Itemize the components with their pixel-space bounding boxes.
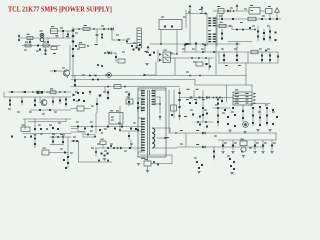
label R885b [60,134,63,135]
wire Q801 emitter [67,76,69,78]
value label L84 [166,137,169,138]
wire rectified DC top [73,28,97,30]
bridge diode D802 [72,35,74,37]
resistor R871 [217,121,219,123]
capacitor C821b [9,104,11,106]
wire flag stub S3 [204,48,206,53]
capacitor C849 [224,109,226,111]
wire main cap branch [96,29,98,43]
wire stub F804 [276,13,278,20]
value label L82 [249,148,252,149]
value label L22 [259,49,262,50]
resistor R852j [96,103,98,105]
value label L65 [202,99,205,100]
diode D819 [83,100,85,102]
wire R832 drop [208,58,210,70]
wire K stub up1 [193,91,195,98]
resistor R872 [234,114,236,116]
wire N vert x131 [130,140,132,148]
IC803 error amp [109,110,123,124]
resistor R864c [202,114,204,116]
wire opto in top [147,62,157,75]
value label L76 [214,136,217,137]
wire cap col B [269,52,271,63]
value label L72 [258,112,261,113]
capacitor C819 [115,56,117,58]
value label L38 [133,43,136,44]
capacitor C817 [45,53,47,55]
wire L vert x253 [252,109,254,126]
power flag +12V [189,5,192,10]
diode D820 [107,92,109,94]
wire flag stub S4 [236,47,238,53]
node startup junction [108,28,109,29]
resistor R875 [259,106,261,108]
value label L68 [215,105,218,106]
wire line-filter top rail [50,30,73,32]
resistor R844b [65,103,67,105]
capacitor C811 [269,18,271,20]
node cluster e [138,49,140,51]
value label L47 [42,114,45,115]
resistor R854b [265,50,267,52]
capacitor C830b [78,99,80,101]
diode D807 [227,10,230,13]
resistor R807 [219,22,226,28]
label CN802 [235,89,238,90]
wire secondary rail B [219,62,278,64]
resistor R804 [118,39,120,41]
value label L85 [40,134,43,135]
resistor R864 [217,99,219,101]
value label L86 [52,134,55,135]
wire feedback lower [71,79,195,81]
node junction k1 [202,97,204,99]
wire R811 drop [45,47,47,54]
capacitor C809 [232,18,234,20]
value label L93 [130,144,133,145]
node cluster c [139,44,141,46]
diode D864 [230,165,232,167]
node junction p5 [24,136,26,138]
capacitor C851L [227,116,229,118]
resistor R814 [118,59,125,63]
node junction w3 [176,53,178,55]
wire L vert x218 [217,108,219,126]
value label L51 [125,92,128,93]
wire cap drop 255 [254,140,256,150]
wire rail link vert [275,133,277,140]
label IC802 [164,50,167,51]
wire grid right vert [247,52,249,63]
capacitor C857L [272,123,274,125]
wire U803 in [71,108,77,110]
capacitor C855b [242,117,244,119]
wire Q802 base [40,97,42,103]
value label L40 [105,75,108,76]
wire TR row3b [232,26,256,30]
value label L60 [38,125,41,126]
label IC803 inner [111,117,114,118]
wire flag stub A [189,10,191,14]
wire C802 stub [62,31,64,38]
value label L23 [267,49,270,50]
value label L50 [103,92,106,93]
resistor R854 [91,126,93,128]
wire opto bottom rail [71,86,180,88]
wire flag +B stem [236,9,238,11]
value label L75 [180,130,183,131]
resistor R841 [50,88,56,93]
capacitor C806 [126,41,128,43]
resistor R891 [101,153,103,155]
node cluster d [133,49,135,51]
capacitor C869a [30,136,32,138]
wire grid left vert [218,52,220,63]
primary winding lower [141,118,145,152]
wire vert x120 [119,106,121,131]
bridge diode D803 [72,40,74,42]
resistor R866 [206,113,208,115]
wire L vert x267 [266,109,268,126]
diode bridge D806 [217,6,224,14]
cap C812b inside module [171,26,173,28]
resistor R812 [51,47,57,50]
power flag T1 [159,115,162,120]
wire output rail mid [177,146,264,148]
value label L55 [76,122,79,123]
node cluster b [136,47,138,49]
capacitor C843b [189,102,191,104]
wire power tap2 [152,147,177,149]
value label L78 [234,143,237,144]
resistor R865 [192,114,194,116]
wire vert x108 [107,90,109,100]
wire power tap1 [152,127,170,129]
diode D813 [108,52,111,55]
wire C803 stub [67,31,69,38]
wire table feed drop [251,85,253,92]
primary winding upper A [141,90,145,96]
wire N row main [95,147,142,149]
value label L73 [265,105,268,106]
wire cap drop ac1 [29,38,31,43]
node junction g4 [191,57,193,59]
resistor R857 [126,97,133,104]
wire vert o3 [185,133,187,147]
node junction bridge out [78,28,80,30]
regulator IC801 [249,5,260,14]
wire primary tap4 [138,117,145,119]
wire startup drop [111,29,113,40]
value label L66 [190,110,193,111]
wire vertical x177 [176,30,178,55]
wire diode col 2 [236,52,238,63]
resistor R893 [100,139,106,145]
wire lower left bottom [23,133,71,135]
value label L56 [90,122,93,123]
dark node xB [99,94,102,96]
wire opto to rail [171,53,178,55]
capacitor CY2 [47,41,49,43]
pin node n2 [107,147,109,149]
resistor R809c [269,37,271,39]
wire bridge rectifier rail [72,28,74,79]
value label L27 [205,64,208,65]
wire K stub down1 [195,98,197,105]
wire L vert x260 [259,108,261,126]
capacitor C872 [67,156,69,158]
svg-text:TCL 21K77 SMPS [POWER SUPPLY]: TCL 21K77 SMPS [POWER SUPPLY] [8,5,112,14]
resistor R890 [73,140,75,142]
wire drop x35L [34,119,36,131]
wire M drop x63 [62,137,64,145]
capacitor C838 [128,135,130,137]
capacitor C862 [232,145,234,147]
wire flag stub A long [189,10,191,45]
wire L row [213,107,230,109]
primary winding upper B [141,99,145,106]
capacitor C853L [252,115,254,117]
diode D863 [198,167,200,169]
ground GO5 [261,152,264,154]
value label L77 [224,143,227,144]
value label L37 [122,52,125,53]
label B+ node [184,116,187,117]
node junction m2 [57,136,59,138]
value label L30 [186,72,189,73]
capacitor C814 [242,29,244,31]
value label L24 [225,65,228,66]
value label L46 [29,112,32,113]
capacitor C863 [254,145,256,147]
resistor R845 [21,125,30,132]
capacitor C873 [67,162,69,164]
wire cap drop 223 [222,140,224,150]
capacitor C825 [34,128,36,130]
capacitor C875 [76,140,78,142]
label IC801 pins [251,10,253,11]
wire drop x222 [221,97,223,103]
resistor R844 [52,101,54,103]
capacitor C874 [87,134,89,136]
wire B+ vert rail [179,88,181,120]
wire xfmr bottom rail [140,154,172,156]
node junction p4 [46,128,48,130]
wire bottom row J [71,126,142,128]
resistor R886 [42,148,49,155]
capacitor C833b [153,52,155,54]
value label L61 [49,125,52,126]
node junction n1 [101,132,102,133]
cap C812a inside module [164,26,166,28]
connector table CN802 [233,92,252,105]
label R863 [196,89,199,90]
degauss posistor TH801 [40,33,44,41]
node junction g6 [205,57,207,59]
wire feedback upper [183,75,246,77]
node junction p2 [59,91,61,93]
capacitor C878 [98,160,100,162]
resistor R883 [229,158,231,160]
resistor R856 [121,126,123,128]
value label L1 [101,26,104,27]
wire primary tap5 [138,151,145,153]
wire vert x96 low [95,113,97,133]
capacitor C815b [72,55,74,57]
wire snubber vert B [173,90,175,118]
capacitor C814f [221,33,223,35]
capacitor C842 [195,102,197,104]
resistor R846 [52,127,54,129]
diode D830 [178,92,180,94]
resistor R880 [240,139,247,146]
wire diode col 1 [223,52,225,63]
wire M drop x53 [52,137,54,145]
ground GL3 [256,130,259,132]
diode D808 [249,27,251,29]
wire drop x66 [65,97,67,107]
resistor R873 [234,125,236,127]
value label L11 [244,9,247,10]
wire primary row3 [30,109,71,111]
wire TR vert x270 [269,27,271,41]
diode D853 [236,55,238,57]
resistor R874 [252,107,254,109]
capacitor C841 [179,106,181,108]
power flag +B [236,4,239,9]
wire N row2 [71,140,79,142]
value label L7 [183,17,186,18]
pin node n3 [113,147,115,149]
capacitor C830 [82,92,84,94]
node junction p1 [32,91,33,92]
value label L81 [273,143,276,144]
capacitor C866 [201,164,203,166]
resistor R895 [157,164,159,166]
wire drop x226 [226,85,228,102]
wire cap col A [261,52,263,63]
resistor R888 [65,167,67,169]
wire stub D806 [221,14,223,20]
value label L20 [221,49,224,50]
fusible resistor F801 [27,34,34,40]
arrow opto in2 [159,59,162,62]
wire opto out [171,57,214,59]
resistor R832 [206,63,208,65]
wire drop x10 [9,97,11,106]
bridge diode D801 [72,29,74,31]
capacitor C865 [271,145,273,147]
node junction m1 [52,136,54,138]
capacitor C846 [199,124,201,126]
filter module L802 [159,17,182,30]
resistor R806 [248,17,256,21]
wire U803 out [84,108,90,110]
capacitor C853 [277,56,279,58]
wire left edge drop [3,92,5,97]
diode D866 [107,153,109,155]
value label L58 [118,123,121,124]
capacitor C845 [199,116,201,118]
capacitor C852 [269,55,271,57]
diode D862 [202,146,205,149]
resistor R822 [114,85,121,89]
resistor R809 [257,31,259,33]
ground GO7 [146,171,149,173]
comparator U803 [77,106,84,111]
wire M row [50,136,71,138]
wire M drop x35 [34,139,36,148]
wire staircase [71,129,95,135]
capacitor C840 [171,114,173,116]
resistor R814b [101,65,103,67]
capacitor C812 [205,13,207,15]
capacitor C861 [222,145,224,147]
value label L28 [146,52,149,53]
resistor R879b [276,116,278,118]
wire Q801 collector [69,46,71,71]
value label L32 [36,51,39,52]
arrow node feedback [144,74,147,77]
capacitor C831 [128,101,130,103]
emitter blob Q806 [241,151,243,153]
wire R893 stub [102,145,104,149]
capacitor C826 [40,128,42,130]
wire R881 top [147,155,149,161]
wire flag stub S1 [184,48,186,53]
capacitor C818 [75,45,77,47]
resistor R840 [11,91,13,93]
wire grid to B+ drop [245,63,247,76]
capacitor C854L [259,117,261,119]
wire K row y122 [196,121,213,123]
wire flag bus [186,13,207,15]
wire R822 stub [104,87,106,93]
resistor R892 [107,160,109,162]
wire N bottom [79,161,113,163]
power flag triangle F804 [275,8,280,12]
capacitor C844 [217,103,219,105]
wire sec vert link [159,97,161,113]
wire primary tap3 [138,106,145,108]
wire TR vert x258 [257,26,259,41]
node junction f2 [104,52,106,54]
ground GO1 [221,152,224,154]
capacitor C852L [227,123,229,125]
primary winding upper C [141,107,145,112]
resistor R860 [171,105,177,111]
diode D865 [63,159,65,161]
transistor Q803 [107,73,112,78]
wire feedback mid link [195,84,252,86]
resistor R811 [43,42,49,47]
resistor R878 [259,124,261,126]
value label L16 [267,26,270,27]
ground GN1 [103,159,106,161]
capacitor C834b [209,66,211,68]
resistor R803 [103,28,105,30]
resistor R884 [34,138,36,140]
connector AC plug J801 [18,35,20,41]
value label L95 [70,153,73,154]
power flag +8V [201,6,204,11]
diode D854 [236,59,238,61]
resistor R882 [196,161,198,163]
capacitor C803 [67,34,69,36]
label G1 [145,51,148,52]
wire lower left top [23,118,71,120]
